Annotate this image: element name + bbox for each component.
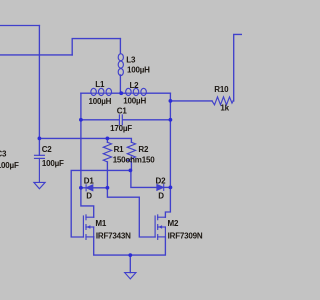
wire M1 source down xyxy=(94,237,131,255)
wire into L3 xyxy=(119,39,121,54)
wire left rail x=80.9 xyxy=(80,93,82,188)
wire L2 right lead xyxy=(147,92,171,94)
node dot D1 left xyxy=(79,186,83,190)
inductor L1 xyxy=(91,88,112,95)
svg-text:1k: 1k xyxy=(220,104,229,113)
svg-text:C1: C1 xyxy=(117,106,128,115)
svg-text:D: D xyxy=(86,192,92,201)
node dot R2 bottom xyxy=(129,169,133,173)
wire left rail to M1 drain xyxy=(81,188,94,217)
ground C2 xyxy=(34,182,45,188)
svg-text:D: D xyxy=(158,192,164,201)
svg-text:D1: D1 xyxy=(84,177,95,186)
wire left rail down to C2 xyxy=(38,26,40,156)
node dot D1 right xyxy=(106,186,110,190)
wire right rail to M2 drain xyxy=(165,187,170,217)
wire R1 top stem xyxy=(106,138,108,142)
svg-text:R10: R10 xyxy=(214,85,229,94)
node dot C1 left xyxy=(79,118,83,122)
node dot R10 branch xyxy=(169,99,173,103)
svg-text:M2: M2 xyxy=(168,219,179,228)
node dot L1 L2 L3 junction xyxy=(119,91,123,95)
wire R2 bottom stem xyxy=(130,162,132,171)
resistor R10 xyxy=(212,97,233,105)
wire C1 right lead xyxy=(123,119,171,121)
svg-text:100µF: 100µF xyxy=(0,161,19,170)
node dot C2 branch xyxy=(38,137,42,141)
wire step up xyxy=(72,39,120,55)
wire C1 left lead xyxy=(81,119,119,121)
wire R2 bottom to gate-feed left xyxy=(71,170,130,237)
wire M2 source down xyxy=(130,237,165,255)
ground main xyxy=(125,273,136,279)
wire L1 left lead xyxy=(81,92,91,94)
wire R10 row xyxy=(170,100,212,102)
wire D1 right lead xyxy=(93,187,108,189)
svg-text:100µF: 100µF xyxy=(42,159,64,168)
capacitor C2 xyxy=(35,155,45,182)
svg-text:D2: D2 xyxy=(156,176,167,185)
wire R1 bottom stem xyxy=(106,162,108,188)
wire from C2 node to R1 top xyxy=(39,137,107,139)
node dot C1 right xyxy=(169,118,173,122)
wire L2 left lead xyxy=(121,92,126,94)
wire right rail upper xyxy=(169,93,171,187)
transistor M2 xyxy=(155,215,165,240)
svg-text:R1: R1 xyxy=(114,145,125,154)
resistor R1 xyxy=(103,142,111,162)
inductor L2 xyxy=(126,88,147,95)
diode D2 xyxy=(157,184,164,190)
svg-text:C2: C2 xyxy=(42,145,53,154)
svg-text:100µH: 100µH xyxy=(89,97,112,106)
transistor M1 xyxy=(83,215,93,240)
wire D1 anode lead xyxy=(81,187,86,189)
resistor R2 xyxy=(127,142,135,162)
wire L1 right lead xyxy=(112,92,121,94)
wire R10 right to top corner xyxy=(233,34,242,101)
svg-text:R2: R2 xyxy=(138,145,149,154)
node dot R1 top xyxy=(106,137,110,141)
wire R2 bottom down to D2 xyxy=(131,170,157,187)
svg-text:L2: L2 xyxy=(130,81,140,90)
wire L3 bottom to row xyxy=(119,75,121,93)
inductor L3 xyxy=(118,54,123,76)
wire D2 cathode lead xyxy=(164,186,171,188)
svg-text:C3: C3 xyxy=(0,149,7,158)
capacitor C1 xyxy=(119,115,122,125)
wire D1 node down to M2 gate xyxy=(107,188,155,237)
svg-text:M1: M1 xyxy=(95,219,106,228)
wire second top-left horizontal xyxy=(0,54,72,56)
svg-text:100µH: 100µH xyxy=(127,66,150,75)
svg-text:100µH: 100µH xyxy=(123,97,146,106)
node dot D2 right xyxy=(169,186,173,190)
svg-text:150ohm150: 150ohm150 xyxy=(113,155,156,164)
diode D1 xyxy=(86,185,93,191)
svg-text:170µF: 170µF xyxy=(110,124,132,133)
svg-text:IRF7309N: IRF7309N xyxy=(168,232,203,241)
wire top-left horizontal xyxy=(0,25,39,27)
wire ground stem xyxy=(129,255,131,273)
wire R1 top to R2 top xyxy=(107,138,131,142)
svg-text:L1: L1 xyxy=(95,80,105,89)
node dot ground tap xyxy=(128,253,132,257)
svg-text:L3: L3 xyxy=(126,55,136,64)
svg-text:IRF7343N: IRF7343N xyxy=(96,231,131,240)
